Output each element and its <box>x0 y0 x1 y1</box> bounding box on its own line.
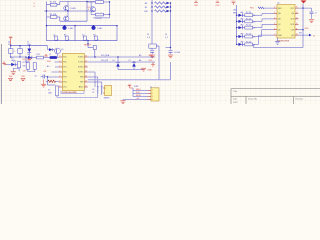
svg-text:Q5: Q5 <box>61 49 63 51</box>
svg-text:P-RXD: P-RXD <box>78 57 84 59</box>
svg-text:23: 23 <box>253 28 255 30</box>
svg-text:Revision: Revision <box>296 99 304 101</box>
svg-text:24: 24 <box>85 76 87 78</box>
net label RESET <box>84 43 92 47</box>
resistor R13 <box>26 61 30 70</box>
resistor R2 <box>50 14 57 18</box>
node <box>46 25 118 26</box>
svg-text:U2: U2 <box>277 2 279 4</box>
power port <box>8 76 13 80</box>
wire <box>61 91 84 94</box>
wire <box>170 3 172 48</box>
svg-text:Y1: Y1 <box>48 89 50 91</box>
svg-text:5V0_SDA: 5V0_SDA <box>101 54 110 57</box>
wire <box>47 17 60 21</box>
svg-text:PD2: PD2 <box>63 72 66 74</box>
wire <box>277 38 279 41</box>
node <box>47 76 48 77</box>
title block text <box>233 90 303 104</box>
title block frame <box>231 89 320 104</box>
svg-text:PD3: PD3 <box>63 77 66 79</box>
svg-text:P-INT1: P-INT1 <box>78 72 83 74</box>
svg-text:25: 25 <box>85 71 87 73</box>
wire <box>133 93 148 95</box>
svg-text:MOSI: MOSI <box>136 95 141 97</box>
wire <box>28 69 35 71</box>
wire <box>60 1 95 3</box>
svg-text:D7: D7 <box>129 60 131 62</box>
net label <box>299 33 302 35</box>
resistor R8 <box>145 2 171 5</box>
node <box>67 10 68 11</box>
svg-text:R10: R10 <box>144 11 147 13</box>
wire <box>109 1 111 15</box>
power flag <box>128 84 133 88</box>
net label VDD <box>305 28 310 30</box>
resistor R12 <box>32 54 44 59</box>
svg-text:PD4: PD4 <box>63 82 66 84</box>
svg-text:D5: D5 <box>27 54 29 56</box>
ground <box>41 80 46 88</box>
wire <box>151 0 153 44</box>
resistor R16 <box>56 86 59 96</box>
net label <box>101 59 153 62</box>
led LED1 <box>236 12 244 17</box>
connector P1 <box>148 87 160 101</box>
svg-text:R8: R8 <box>145 3 147 5</box>
component R6 <box>93 34 98 40</box>
wire <box>116 26 118 41</box>
wire <box>88 77 98 87</box>
led LED2 <box>236 18 244 23</box>
svg-text:D6: D6 <box>241 18 243 20</box>
wire <box>94 50 96 58</box>
svg-text:VDD: VDD <box>305 28 310 30</box>
svg-text:SDA: SDA <box>149 54 154 57</box>
wire <box>57 97 98 99</box>
wire <box>55 66 59 68</box>
svg-text:1-MIC: 1-MIC <box>68 28 74 30</box>
svg-text:C9: C9 <box>92 92 94 94</box>
svg-text:C7: C7 <box>315 13 317 15</box>
svg-text:23: 23 <box>253 15 255 17</box>
svg-text:GND: GND <box>148 69 153 71</box>
wire <box>44 10 96 12</box>
resistor R13 <box>243 25 256 30</box>
resistor R15 <box>243 41 256 46</box>
resistor R9 <box>145 6 171 9</box>
node <box>133 61 134 62</box>
ground <box>275 42 280 45</box>
inductor L1 <box>44 54 59 59</box>
wire <box>118 69 144 71</box>
svg-text:D4: D4 <box>11 57 13 59</box>
resistor R4 <box>96 13 110 20</box>
net port DIO <box>309 34 316 38</box>
wire <box>46 2 48 26</box>
wire <box>98 94 102 98</box>
svg-text:C5: C5 <box>35 76 37 78</box>
svg-text:MISO: MISO <box>136 89 141 91</box>
net label <box>43 71 47 73</box>
net label <box>92 89 94 94</box>
wire <box>57 54 59 57</box>
wire <box>47 46 49 50</box>
diode D7 <box>129 60 137 70</box>
resistor R15 <box>46 80 59 82</box>
wire <box>47 2 60 5</box>
node <box>10 56 27 57</box>
resistor R12 <box>243 18 256 23</box>
led LED4 <box>236 33 244 38</box>
component C1 <box>53 34 58 40</box>
node <box>302 7 303 8</box>
svg-text:R13: R13 <box>26 61 29 63</box>
wire <box>88 72 95 87</box>
wire <box>86 2 88 22</box>
svg-text:PD0: PD0 <box>63 62 66 64</box>
wire <box>93 15 110 18</box>
svg-text:A5: A5 <box>139 54 141 57</box>
svg-text:R12: R12 <box>37 54 40 56</box>
capacitor C4 <box>169 48 181 54</box>
mic MK1 <box>62 26 74 30</box>
led LED5 <box>236 41 244 46</box>
wire <box>156 45 159 47</box>
svg-text:PD0: PD0 <box>47 61 51 63</box>
wire <box>253 35 274 44</box>
svg-text:23: 23 <box>253 21 255 23</box>
net labels <box>23 59 29 72</box>
sheet left border <box>0 44 2 104</box>
svg-text:C2: C2 <box>82 34 84 36</box>
svg-text:P-INT0: P-INT0 <box>78 67 83 69</box>
wire <box>88 56 155 58</box>
power flag <box>151 63 155 67</box>
power port <box>21 76 26 80</box>
svg-text:22: 22 <box>85 86 87 88</box>
node <box>302 29 303 30</box>
wire <box>60 20 87 22</box>
net label <box>165 34 169 39</box>
svg-text:16MHz: 16MHz <box>104 97 110 99</box>
wire <box>170 62 172 80</box>
transistor Q2 <box>64 11 69 21</box>
wire <box>88 82 102 87</box>
wire <box>253 30 274 37</box>
wire <box>122 100 124 101</box>
wire <box>48 84 56 86</box>
resistor R7 <box>93 46 96 50</box>
node <box>64 25 65 26</box>
svg-text:+: + <box>14 51 15 53</box>
mic MK2 <box>91 26 103 30</box>
wire <box>52 71 59 73</box>
wire <box>158 46 160 80</box>
power flag <box>194 1 198 7</box>
wire <box>11 56 26 58</box>
power flag VCC <box>232 1 237 5</box>
svg-text:13: 13 <box>296 18 298 20</box>
svg-text:5V0: 5V0 <box>21 76 24 78</box>
svg-text:PD5: PD5 <box>250 7 254 9</box>
svg-text:D7: D7 <box>241 25 243 27</box>
power flag <box>216 1 221 7</box>
ground <box>141 68 152 71</box>
ground <box>120 101 125 104</box>
wire <box>88 61 155 63</box>
svg-text:Drawn By:: Drawn By: <box>248 99 258 101</box>
wire <box>303 8 312 11</box>
node <box>46 10 47 11</box>
net label <box>250 7 264 9</box>
transistor Q1 <box>64 2 77 12</box>
power flag VCC <box>301 0 306 3</box>
led D4 <box>7 60 17 66</box>
node <box>94 56 118 57</box>
wire <box>133 90 148 92</box>
power flag <box>44 55 48 57</box>
node <box>170 47 171 48</box>
wire <box>47 25 118 27</box>
wire <box>132 88 134 97</box>
net label <box>11 57 15 62</box>
svg-text:12: 12 <box>296 23 298 25</box>
net label <box>48 89 52 94</box>
node <box>87 40 88 41</box>
net label <box>47 65 49 68</box>
svg-text:C4 104: C4 104 <box>174 52 180 54</box>
svg-text:D10_RX: D10_RX <box>101 60 109 62</box>
diode D6 <box>113 57 121 70</box>
net label <box>233 9 238 14</box>
wire <box>88 41 93 48</box>
svg-text:10: 10 <box>296 34 298 36</box>
resistor R14 <box>33 63 36 70</box>
node <box>93 25 94 26</box>
svg-text:R9: R9 <box>145 7 147 9</box>
diode D3 <box>27 46 31 57</box>
ground <box>27 57 32 61</box>
svg-text:0: 0 <box>88 9 89 11</box>
svg-text:P-TXD: P-TXD <box>78 62 84 64</box>
ic U2 74HC595 <box>274 2 299 42</box>
wire <box>55 61 59 63</box>
net labels <box>136 89 141 100</box>
svg-text:R5: R5 <box>64 34 66 36</box>
ic U1 ATMEGA168 <box>59 53 88 94</box>
wire <box>253 19 274 22</box>
net label D5V <box>8 42 11 47</box>
node <box>109 1 110 2</box>
capacitor C1 <box>9 46 14 57</box>
crystal plates <box>97 87 103 94</box>
crystal Y1 <box>103 86 112 100</box>
component C2 <box>82 34 87 40</box>
svg-text:PC6: PC6 <box>63 57 66 59</box>
net label <box>101 54 153 57</box>
svg-text:A0: A0 <box>47 65 49 68</box>
net label <box>147 34 151 39</box>
ground <box>168 55 173 58</box>
ground <box>309 20 314 23</box>
diode D5 <box>26 54 32 59</box>
wire <box>254 47 304 49</box>
capacitor C3 <box>149 44 157 54</box>
svg-text:27: 27 <box>85 61 87 63</box>
diode D2 <box>48 48 53 51</box>
wire <box>45 76 48 79</box>
svg-text:D5: D5 <box>241 12 243 14</box>
wire <box>46 26 48 41</box>
transistor Q4 <box>53 48 64 54</box>
capacitor C2 <box>14 46 22 57</box>
wire <box>299 34 310 36</box>
component R5 <box>64 34 69 40</box>
svg-text:D9: D9 <box>241 41 243 43</box>
capacitor C6 <box>35 75 45 79</box>
svg-text:D6: D6 <box>113 60 115 62</box>
svg-text:14: 14 <box>296 12 298 14</box>
svg-text:PB7: PB7 <box>80 82 83 84</box>
svg-text:R6: R6 <box>93 34 95 36</box>
svg-text:A4: A4 <box>139 59 141 62</box>
wire <box>264 7 274 9</box>
resistor R14 <box>243 34 256 39</box>
resistor R11 <box>243 12 256 17</box>
svg-text:11: 11 <box>296 28 298 30</box>
ground <box>150 55 155 58</box>
net label <box>47 61 51 63</box>
svg-text:PD1: PD1 <box>63 67 66 69</box>
svg-text:R4 10K: R4 10K <box>96 18 103 20</box>
svg-text:PB6: PB6 <box>80 77 83 79</box>
capacitor C7 <box>310 12 318 15</box>
wire <box>133 96 148 98</box>
wire <box>56 96 58 98</box>
wire <box>253 44 255 47</box>
node <box>109 14 110 15</box>
net label <box>134 86 139 88</box>
svg-text:5V0: 5V0 <box>9 76 12 78</box>
wire <box>311 14 313 19</box>
node <box>10 45 30 46</box>
wire <box>25 58 27 63</box>
svg-text:26: 26 <box>85 66 87 68</box>
wire <box>299 29 304 31</box>
resistor R3 <box>87 1 110 4</box>
wire <box>236 5 238 44</box>
power flag <box>9 36 13 45</box>
svg-text:D8: D8 <box>241 33 243 35</box>
net flag <box>33 3 35 8</box>
svg-text:28: 28 <box>85 56 87 58</box>
transistor Q3 <box>90 2 95 15</box>
net label C1 <box>27 42 31 47</box>
wire <box>15 64 17 66</box>
wire <box>253 14 274 16</box>
svg-text:AVCC: AVCC <box>79 86 84 89</box>
wire <box>47 40 118 42</box>
wire <box>253 24 274 27</box>
svg-text:L1: L1 <box>49 54 51 56</box>
svg-text:5V0: 5V0 <box>194 5 197 7</box>
wire <box>166 47 171 49</box>
svg-text:C1: C1 <box>53 34 55 36</box>
svg-text:23: 23 <box>85 81 87 83</box>
svg-text:ICSP: ICSP <box>134 86 139 88</box>
svg-text:C8: C8 <box>92 89 94 91</box>
wire <box>47 77 49 85</box>
resistor R10 <box>144 10 171 13</box>
resistor R1 <box>50 2 57 7</box>
resistor R11 <box>18 62 21 68</box>
wire <box>11 45 48 47</box>
wire bus <box>88 79 171 81</box>
wire <box>74 26 76 41</box>
svg-text:15: 15 <box>296 7 298 9</box>
wire <box>48 76 59 78</box>
svg-text:16M: 16M <box>48 92 52 94</box>
power flag <box>2 62 6 65</box>
wire <box>299 4 304 48</box>
ground <box>11 72 16 75</box>
wire <box>123 99 148 101</box>
svg-text:1-MIC: 1-MIC <box>97 28 103 30</box>
wire <box>91 14 95 16</box>
wire <box>13 68 19 72</box>
node <box>86 1 87 2</box>
svg-text:RED: RED <box>233 12 238 14</box>
svg-text:23: 23 <box>253 37 255 39</box>
net label <box>87 7 90 11</box>
led LED3 <box>236 24 244 29</box>
